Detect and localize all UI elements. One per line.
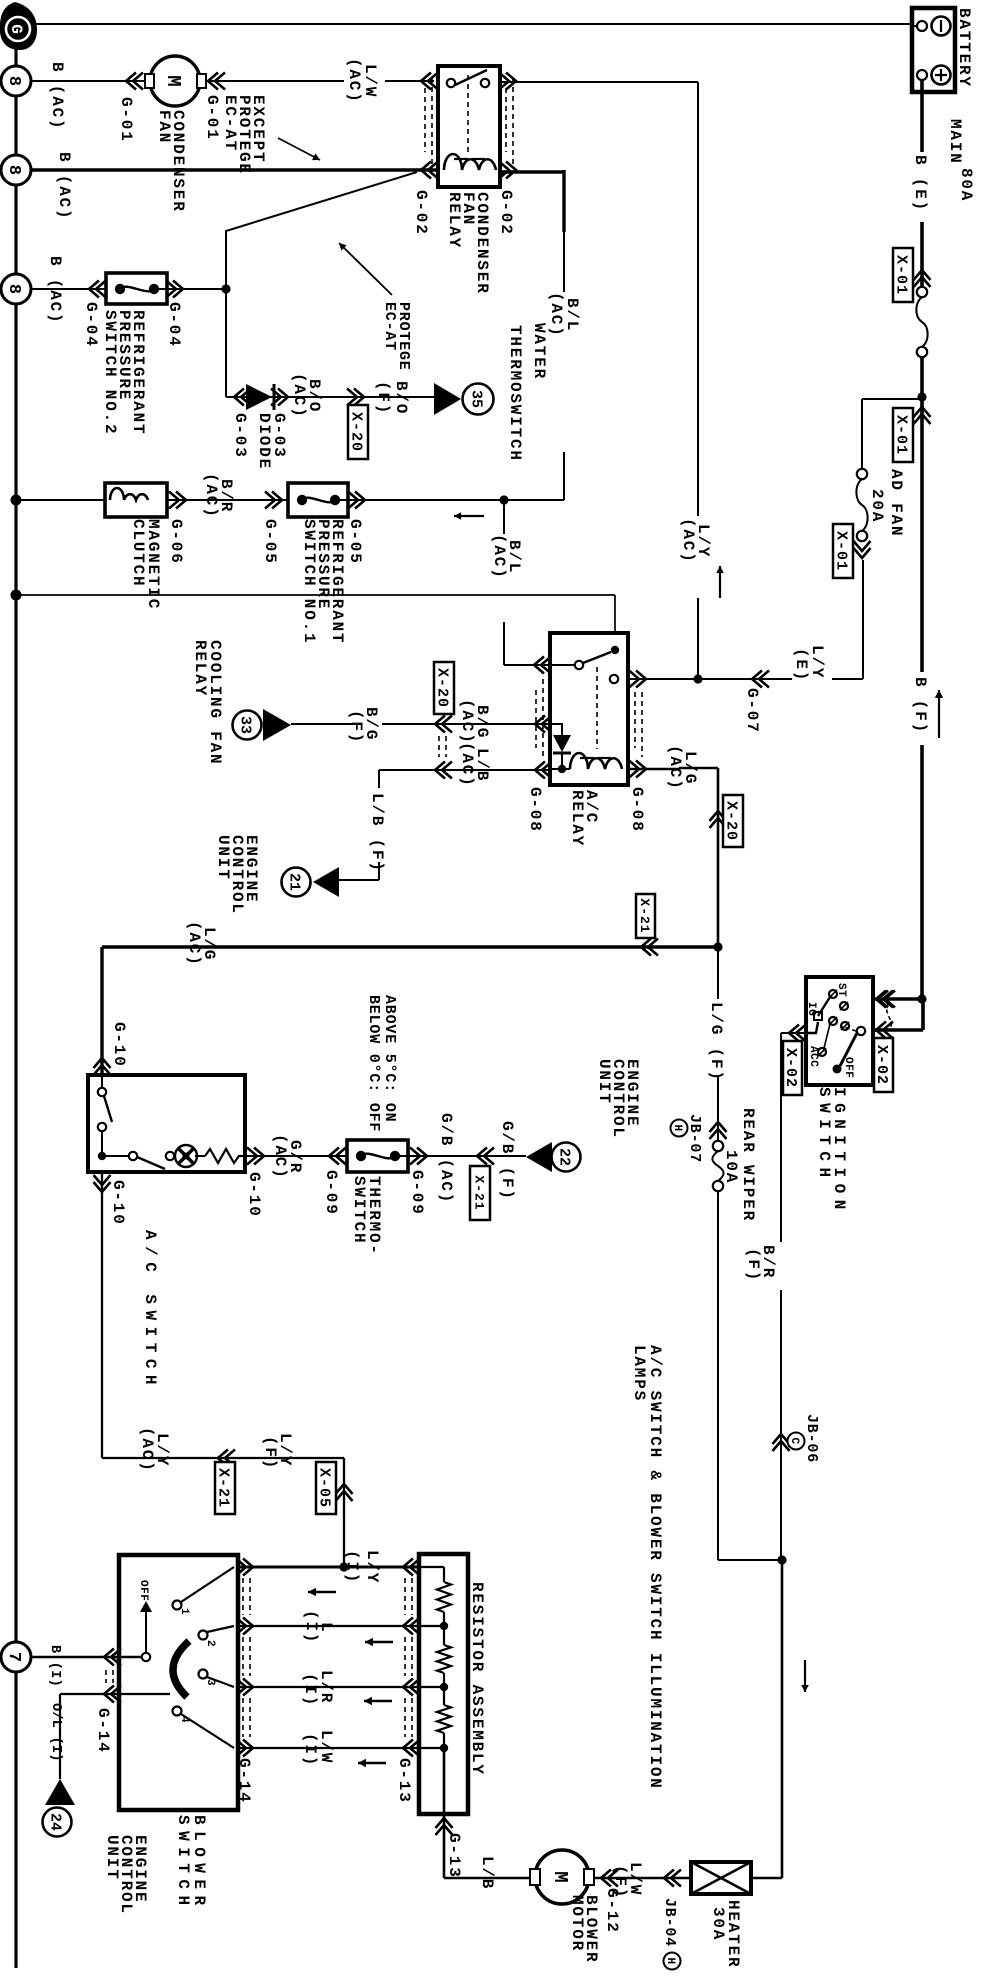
svg-text:FAN: FAN [155, 110, 173, 144]
wire relay contact output L/Y(AC) [500, 81, 698, 83]
connector G-12 [601, 1870, 618, 1887]
wire bus to condenser fan [31, 80, 147, 82]
wire B feed to junction [920, 357, 924, 397]
refrigerant pressure switch no1 [288, 483, 348, 517]
connector G-08 chevron (2) [535, 762, 552, 779]
svg-text:L/G (F): L/G (F) [707, 1002, 725, 1082]
wire fuse to L/G junction [717, 1075, 719, 1141]
svg-text:B (F): B (F) [911, 677, 929, 734]
svg-text:WATER: WATER [530, 323, 548, 380]
svg-text:M: M [162, 75, 184, 86]
arrow to 35 water thermoswitch [434, 383, 461, 415]
svg-text:(E): (E) [792, 648, 810, 682]
svg-text:RELAY: RELAY [568, 790, 586, 847]
connector G-08 chevron [535, 716, 552, 733]
wire L/Y(E) to relay junction [862, 560, 864, 679]
svg-text:(AC): (AC) [490, 534, 508, 580]
wire L/G(AC) thick to A/C switch [102, 945, 718, 948]
svg-text:(AC): (AC) [458, 742, 476, 788]
relay output chevron G-07 side [629, 671, 646, 688]
ignition IG output wire [781, 1032, 806, 1034]
connector X-05 [336, 1484, 353, 1501]
connector X-02 left [789, 1025, 806, 1042]
svg-text:B (AC): B (AC) [46, 256, 64, 324]
switch contacts 1-4 [173, 1601, 182, 1610]
connector G-05 (2) [348, 492, 365, 509]
svg-text:(AC): (AC) [666, 745, 684, 791]
fuse HEATER 30A [691, 1862, 751, 1894]
junction node L/Y blower [339, 1562, 348, 1571]
svg-text:THERMOSWITCH: THERMOSWITCH [506, 325, 524, 462]
svg-text:B (I): B (I) [47, 1645, 62, 1687]
condenser fan relay [438, 66, 500, 187]
connector X-20 (2) [435, 716, 452, 733]
annotation arrow [719, 566, 721, 598]
wire B(I) bus to blower switch [31, 1656, 142, 1659]
connector X-20 (3) chevron [435, 762, 452, 779]
switch contacts [101, 1075, 103, 1088]
svg-text:X-21: X-21 [637, 898, 652, 933]
svg-text:JB-07: JB-07 [686, 1114, 703, 1163]
svg-text:35: 35 [468, 390, 485, 408]
svg-text:RESISTOR ASSEMBLY: RESISTOR ASSEMBLY [468, 1582, 486, 1776]
svg-text:G-13: G-13 [395, 1758, 413, 1804]
wire bus to pressure switch no2 [31, 288, 115, 290]
svg-text:2: 2 [204, 1640, 216, 1647]
svg-text:H: H [671, 1124, 683, 1131]
svg-text:(F): (F) [261, 1436, 279, 1470]
svg-text:X-01: X-01 [833, 531, 850, 571]
refrigerant pressure switch no2 [106, 273, 167, 304]
svg-text:X-01: X-01 [893, 255, 910, 295]
node 8 (2) [1, 155, 31, 185]
svg-text:G-02: G-02 [497, 190, 515, 236]
wire blower row 1 [238, 1566, 419, 1569]
annotation arrow right [804, 1660, 806, 1692]
svg-text:G-09: G-09 [408, 1170, 426, 1216]
connector X-21 (3) [218, 1450, 235, 1467]
ignition switch [806, 977, 873, 1085]
junction node diode branch [221, 284, 230, 293]
svg-text:(AC): (AC) [138, 1427, 156, 1473]
svg-text:(AC): (AC) [547, 292, 565, 338]
svg-text:10A: 10A [722, 1150, 740, 1184]
connector X-02 right [876, 991, 893, 1008]
svg-text:30A: 30A [709, 1907, 727, 1941]
connector G-05 [265, 492, 282, 509]
condenser fan motor M [150, 56, 200, 106]
relay dashed link [512, 78, 514, 168]
connector G-09 (2) [410, 1148, 427, 1165]
thermoswitch [347, 1140, 408, 1172]
svg-text:G-05: G-05 [261, 519, 279, 565]
svg-text:(F): (F) [744, 1248, 762, 1282]
svg-text:DIODE: DIODE [255, 413, 273, 470]
junction node L/Y [693, 674, 702, 683]
blower motor [535, 1850, 589, 1904]
connector X-21 [641, 939, 658, 956]
svg-text:A/C SWITCH: A/C SWITCH [141, 1230, 159, 1391]
battery [912, 8, 955, 92]
resistor output wire [443, 1748, 446, 1878]
wire blower row 2 [238, 1625, 419, 1627]
AD FAN fuse branch wire [862, 398, 922, 400]
svg-text:UNIT: UNIT [214, 835, 232, 881]
wire B(E) feed from battery [920, 80, 924, 152]
svg-text:ABOVE 5°C: ON: ABOVE 5°C: ON [381, 995, 398, 1122]
annotation arrow down [454, 515, 484, 517]
wire to heater fuse [751, 1877, 782, 1880]
wire L/B from ECU 21 to AC relay coil [339, 879, 379, 881]
svg-text:X-20: X-20 [348, 412, 365, 452]
wire B/R(F) ignition to junction [780, 1033, 782, 1242]
svg-text:(F): (F) [611, 1865, 629, 1899]
junction node ground wire [11, 590, 22, 601]
svg-text:O/L (I): O/L (I) [48, 1703, 63, 1762]
connector JB-04 [664, 1870, 681, 1887]
svg-text:G/B (F): G/B (F) [498, 1121, 516, 1201]
connector G-10 (3) [94, 1175, 111, 1192]
svg-text:OFF: OFF [842, 1057, 854, 1078]
node 8 (3) [1, 274, 31, 304]
svg-text:EC-AT: EC-AT [221, 95, 239, 152]
svg-text:L/B: L/B [478, 1856, 496, 1890]
svg-text:REAR WIPER: REAR WIPER [739, 1108, 757, 1222]
junction node B/L [499, 495, 508, 504]
relay contact [447, 79, 455, 87]
svg-text:SWITCH: SWITCH [174, 1815, 192, 1912]
fuse AD FAN 20A [857, 469, 867, 479]
annotation arrows [308, 1591, 336, 1593]
ignition contacts [829, 990, 837, 998]
battery negative wire to ground [912, 24, 917, 26]
junction node clutch [11, 495, 22, 506]
resistor assembly [419, 1554, 468, 1814]
svg-text:G-13: G-13 [445, 1833, 463, 1879]
svg-text:BELOW 0°C: OFF: BELOW 0°C: OFF [365, 995, 382, 1132]
svg-text:G-08: G-08 [526, 787, 544, 833]
wire B(AC) bus to relay coil [31, 168, 438, 171]
wire relay coil output B/L(AC) [500, 170, 564, 173]
svg-text:M: M [549, 1871, 571, 1882]
switch resistor [205, 1149, 245, 1163]
svg-text:G-14: G-14 [94, 1708, 112, 1754]
wire thermoswitch up [399, 1155, 526, 1157]
connector chevrons G-13 row [403, 1559, 420, 1576]
connector G-04 (2) [166, 281, 183, 298]
svg-text:(AC): (AC) [345, 58, 363, 104]
relay coil [550, 768, 570, 770]
svg-text:SWITCH: SWITCH [815, 1087, 833, 1184]
wire motor to relay L/W(AC) [206, 80, 344, 82]
dashed links G-13 [411, 1578, 413, 1615]
svg-text:20A: 20A [868, 489, 886, 523]
svg-text:LAMPS: LAMPS [630, 1345, 648, 1402]
relay coil [444, 154, 496, 170]
svg-text:SWITCH: SWITCH [350, 1176, 368, 1244]
svg-text:(AC): (AC) [290, 373, 308, 419]
connector X-01 (2) [914, 407, 931, 424]
A/C switch [88, 1075, 245, 1172]
wire B/L to AC relay [503, 500, 505, 534]
svg-text:G-04: G-04 [82, 302, 100, 348]
connector G-10 [94, 1058, 111, 1075]
diode [234, 389, 251, 406]
arrow 22 engine control unit [526, 1142, 552, 1172]
svg-text:G-01: G-01 [117, 97, 135, 143]
svg-text:G-05: G-05 [346, 519, 364, 565]
resistor internal wires [419, 1566, 444, 1568]
svg-text:G-02: G-02 [412, 190, 430, 236]
connector G-13 (2) [436, 1818, 453, 1835]
junction node illumination [777, 1555, 786, 1564]
blower switch [119, 1555, 238, 1810]
svg-text:JB-06: JB-06 [803, 1414, 820, 1463]
node 7 [1, 1642, 31, 1672]
svg-text:MAIN: MAIN [946, 119, 964, 165]
svg-text:X-20: X-20 [723, 801, 740, 841]
wire switch no1 up [339, 499, 564, 501]
magnetic clutch [105, 483, 167, 517]
wire diode to ecu B/O [274, 396, 434, 398]
svg-text:G/B (AC): G/B (AC) [437, 1113, 455, 1204]
svg-text:X-02: X-02 [782, 1048, 799, 1088]
svg-text:G-10: G-10 [109, 1180, 127, 1226]
wire blower row 4 [238, 1747, 419, 1749]
svg-text:33: 33 [237, 716, 254, 734]
relay input wire [550, 664, 575, 666]
svg-text:X-05: X-05 [316, 1468, 333, 1508]
ignition feed stub [872, 997, 922, 1001]
ignition contact slashes [829, 990, 837, 998]
svg-text:21: 21 [286, 873, 303, 891]
connector G-04 [89, 281, 106, 298]
arrow 21 engine control unit [313, 867, 339, 897]
svg-text:B (E): B (E) [911, 155, 929, 212]
connector G-01 [126, 73, 143, 90]
dashed connector links [445, 736, 447, 757]
wire to diode [225, 289, 227, 397]
svg-text:IG: IG [805, 1002, 817, 1016]
svg-text:AD FAN: AD FAN [887, 469, 905, 537]
lamp branch [102, 1155, 129, 1157]
svg-text:BATTERY: BATTERY [955, 8, 973, 88]
wire to thermoswitch [284, 1155, 347, 1157]
relay contact [575, 661, 583, 669]
wire L/B to motor [444, 1877, 534, 1880]
junction node B [917, 392, 926, 401]
wire bus to magnetic clutch [16, 499, 115, 501]
relay diode [550, 724, 562, 735]
svg-text:G-10: G-10 [245, 1172, 263, 1218]
svg-text:G-06: G-06 [167, 519, 185, 565]
svg-text:(AC): (AC) [185, 921, 203, 967]
connector G-02 chevrons [421, 73, 438, 90]
svg-text:(I): (I) [301, 1733, 319, 1767]
wire L/G(AC) coil to X-21 node [628, 768, 679, 771]
svg-text:UNIT: UNIT [103, 1835, 121, 1881]
svg-text:24: 24 [47, 1813, 64, 1831]
svg-text:SWITCH NO.1: SWITCH NO.1 [300, 519, 318, 644]
svg-text:L/B (F): L/B (F) [368, 793, 386, 873]
svg-text:(AC): (AC) [679, 518, 697, 564]
connector G-10 (2) [247, 1148, 264, 1165]
ground symbol G [0, 2, 37, 50]
svg-text:B/O: B/O [392, 381, 410, 415]
connector X-21 (2) [477, 1148, 494, 1165]
svg-text:RELAY: RELAY [191, 640, 209, 697]
svg-text:B (AC): B (AC) [48, 62, 66, 130]
wire clutch to switch no1 [167, 499, 297, 501]
ground bus wire [14, 45, 17, 1968]
arrow 24 engine control unit [45, 1779, 75, 1805]
svg-text:G-07: G-07 [743, 688, 761, 734]
svg-text:X-21: X-21 [471, 1175, 486, 1210]
connector chevrons G-14 row [236, 1559, 253, 1576]
svg-text:(F): (F) [347, 710, 365, 744]
connector chevron [534, 657, 551, 674]
svg-text:A/C SWITCH & BLOWER SWITCH ILL: A/C SWITCH & BLOWER SWITCH ILLUMINATION [646, 1345, 664, 1790]
dashed links G-14 [249, 1578, 251, 1615]
svg-text:1: 1 [178, 1608, 190, 1615]
wire B/G to AC relay [291, 723, 352, 725]
connector G-09 [329, 1148, 346, 1165]
svg-text:(F): (F) [374, 381, 392, 415]
svg-text:(AC): (AC) [202, 473, 220, 519]
annotation arrow protege [339, 243, 392, 295]
svg-text:80A: 80A [957, 168, 975, 202]
relay dashed arm link [596, 667, 598, 749]
svg-text:8: 8 [4, 76, 23, 86]
connector JB-06 [773, 1434, 790, 1451]
connector X-20 [347, 389, 364, 406]
svg-text:B (AC): B (AC) [55, 152, 73, 220]
arrow 33 cooling fan relay [233, 711, 262, 740]
svg-text:X-21: X-21 [215, 1468, 232, 1508]
contact wires [181, 1567, 234, 1602]
wire to ignition switch [921, 999, 925, 1030]
svg-text:H: H [664, 1957, 676, 1964]
svg-text:G-01: G-01 [203, 95, 221, 141]
wire switch to junction [159, 288, 222, 290]
svg-text:X-20: X-20 [434, 668, 451, 708]
wire blower row 3 [238, 1686, 419, 1688]
svg-text:CLUTCH: CLUTCH [129, 519, 147, 587]
svg-text:EC-AT: EC-AT [381, 302, 398, 351]
long ground wire to AC relay arm [16, 594, 615, 596]
wire B(F) feed [920, 397, 924, 672]
fuse REAR WIPER 10A [713, 1141, 723, 1151]
ignition arm [840, 1033, 857, 1066]
svg-text:UNIT: UNIT [595, 1059, 613, 1105]
svg-text:8: 8 [4, 284, 23, 294]
svg-text:22: 22 [556, 1148, 573, 1166]
fuse MAIN 80A [917, 287, 927, 297]
node 8 (1) [1, 66, 31, 96]
wire motor to heater fuse [594, 1877, 691, 1880]
svg-text:G-10: G-10 [110, 1022, 128, 1068]
connector G-14 (3) [104, 1686, 121, 1703]
svg-text:G-03: G-03 [231, 413, 249, 459]
svg-text:X-01: X-01 [893, 415, 910, 455]
connector G-01 (2) [208, 73, 225, 90]
connector X-20 (4) [710, 811, 727, 828]
annotation arrow except protege [278, 138, 320, 160]
svg-text:X-02: X-02 [873, 1045, 890, 1085]
svg-text:7: 7 [4, 1652, 23, 1662]
svg-text:C: C [788, 1437, 800, 1444]
svg-text:ACC: ACC [807, 1046, 819, 1067]
connector JB-07 [710, 1122, 727, 1139]
dashed links right [641, 692, 643, 757]
A/C relay [550, 633, 628, 785]
wire relay output to node [628, 678, 698, 680]
diagonal wire protege ec-at [226, 172, 417, 289]
svg-text:G-08: G-08 [628, 787, 646, 833]
wire O/L to ECU 24 [60, 1693, 170, 1695]
junction node at ignition [917, 994, 926, 1003]
svg-text:(AC): (AC) [458, 699, 476, 745]
svg-text:(I): (I) [301, 1673, 319, 1707]
wire L/Y A/C switch output [101, 1172, 103, 1458]
wire switch output G/R [245, 1155, 284, 1157]
connector X-01 [914, 270, 931, 287]
svg-text:ST: ST [835, 983, 847, 997]
svg-text:RELAY: RELAY [445, 192, 463, 249]
relay arm dashed line [467, 75, 469, 152]
rotary arm [173, 1641, 189, 1697]
svg-text:SWITCH NO.2: SWITCH NO.2 [101, 310, 119, 435]
wire junction down to rear wiper fuse [718, 1559, 782, 1561]
svg-text:JB-04: JB-04 [661, 1898, 678, 1947]
svg-text:MOTOR: MOTOR [568, 1895, 586, 1952]
junction node X-21 [713, 942, 722, 951]
svg-text:8: 8 [4, 165, 23, 175]
svg-text:G-09: G-09 [322, 1170, 340, 1216]
connector X-01 (3) [854, 541, 871, 558]
connector G-07 [752, 671, 769, 688]
svg-text:G-04: G-04 [165, 302, 183, 348]
connector G-06 [169, 492, 186, 509]
flow arrow [938, 690, 940, 738]
svg-text:OFF: OFF [137, 1580, 149, 1601]
svg-text:G: G [7, 24, 25, 34]
svg-text:(I): (I) [302, 1610, 320, 1644]
connector G-14 (2) [104, 1649, 121, 1666]
